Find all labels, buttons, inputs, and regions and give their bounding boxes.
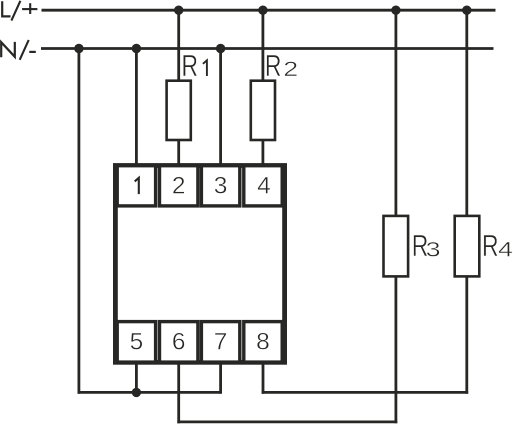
junction: L/+ and R1 branch	[174, 6, 183, 15]
svg-text:4: 4	[498, 238, 513, 262]
terminal pin 6	[160, 322, 198, 363]
svg-text:R: R	[265, 48, 282, 83]
resistor R4 (body)	[455, 216, 480, 277]
wire: L/+ bus down to R2 top	[261, 10, 264, 82]
wire: R1 bottom to terminal 2	[177, 140, 180, 166]
junction: L/+ and R3 branch	[391, 6, 400, 15]
junction: L/+ and R2 branch	[258, 6, 267, 15]
label R1	[182, 47, 207, 82]
svg-text:2: 2	[172, 173, 186, 200]
wire: N/- supply bus	[41, 47, 494, 50]
net label N/-	[1, 40, 36, 60]
wire: terminal 7 down to bottom horizontal	[219, 362, 222, 394]
wire: L/+ supply bus	[42, 9, 496, 12]
junction: N/- and terminal 3 branch	[216, 44, 225, 53]
svg-text:R: R	[482, 228, 499, 263]
svg-text:6: 6	[172, 328, 186, 355]
svg-text:8: 8	[256, 328, 270, 355]
terminal pin 7	[201, 322, 239, 363]
junction: N/- and left drop	[74, 44, 83, 53]
wire: bottom horizontal from left drop to terminal 7	[78, 391, 221, 394]
svg-text:7: 7	[214, 328, 228, 355]
wire: R2 bottom to terminal 4	[261, 140, 264, 166]
svg-text:5: 5	[130, 328, 144, 355]
wire: right horizontal run terminal 8 to R4	[262, 391, 469, 394]
junction: terminal 5 and bottom horizontal	[132, 388, 141, 397]
terminal pin 4	[244, 166, 282, 206]
wire: N/- bus down to terminal 1	[135, 49, 138, 167]
label R3	[412, 228, 441, 263]
net label L/+	[2, 1, 37, 21]
label R2	[265, 48, 298, 83]
terminal pin 3	[201, 166, 239, 206]
wire: terminal 6 down to lowest run	[177, 362, 180, 423]
terminal pin 8	[244, 322, 282, 363]
wire: L/+ bus down to R3 top	[394, 10, 397, 216]
junction: N/- and terminal 1 branch	[132, 44, 141, 53]
wire: terminal 8 down to right return run	[262, 362, 265, 394]
resistor R1 (body)	[167, 81, 191, 140]
svg-text:2: 2	[283, 57, 298, 81]
wire: lowest horizontal run terminal 6 to R3	[177, 420, 397, 423]
terminal pin 5	[117, 322, 155, 363]
svg-text:3: 3	[426, 238, 441, 262]
junction: L/+ and R4 branch	[462, 6, 471, 15]
wire: L/+ bus down to R4 top	[465, 10, 468, 216]
wire: N/- bus down to terminal 3	[219, 49, 222, 167]
wire: terminal 5 down to bottom horizontal	[135, 362, 138, 392]
device U1 outline box	[115, 166, 284, 363]
wire: R3 bottom down to lower return run	[394, 276, 397, 423]
resistor R2 (body)	[251, 81, 275, 140]
svg-text:4: 4	[257, 173, 271, 200]
wire: L/+ bus down to R1 top	[177, 10, 180, 82]
terminal pin 2	[160, 166, 198, 206]
label R4	[482, 228, 513, 263]
svg-text:3: 3	[214, 173, 228, 200]
wire: N/- bus long drop at left	[78, 49, 81, 394]
terminal pin 1	[117, 166, 155, 206]
resistor R3 (body)	[384, 216, 409, 277]
wire: R4 bottom down to terminal 8 run	[465, 276, 468, 393]
svg-text:R: R	[182, 47, 199, 82]
